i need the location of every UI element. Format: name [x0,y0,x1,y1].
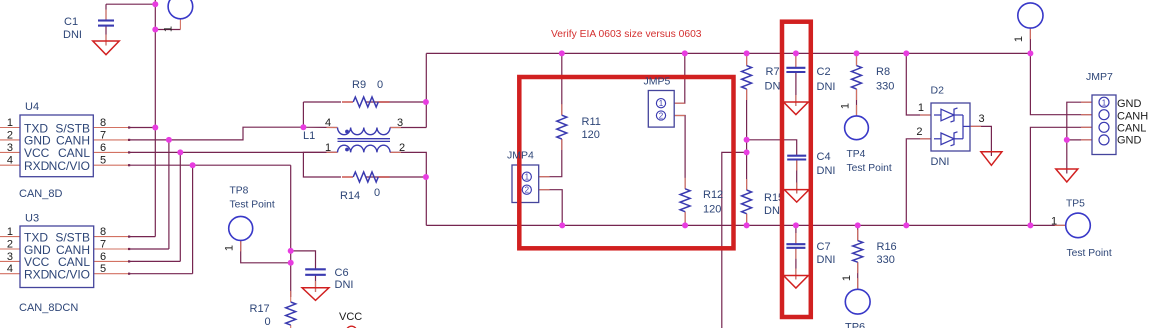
capacitor C7 [786,244,805,248]
svg-text:C1: C1 [64,16,78,28]
diode D2 dual TVS [931,103,970,151]
label R7 [765,66,784,93]
pin numbers U4 [7,117,106,167]
wire L1 pin2 to vertical [390,152,426,225]
capacitor C2 [786,68,805,72]
svg-text:330: 330 [877,254,895,266]
wire D2 pin2 link [906,139,931,226]
svg-text:3: 3 [7,142,13,154]
svg-text:R16: R16 [877,241,897,253]
svg-text:120: 120 [582,129,600,141]
svg-text:1: 1 [1102,98,1107,107]
wire C6 branch [291,251,316,269]
svg-text:R7: R7 [766,66,780,78]
resistor R15 [742,190,752,214]
wire top right TP drop [1029,28,1031,53]
svg-text:JMP4: JMP4 [507,150,534,162]
wire R16 to TP6 [857,262,859,289]
wire C7 to ground [795,248,797,280]
label R16 [877,241,897,266]
pin1 label TP4 [840,103,852,109]
wire C4 branch [747,140,797,156]
wire top test point branch [155,29,180,31]
connector JMP5 [648,91,674,128]
wire JMP4 pin2 to bottom bus [539,190,563,226]
svg-text:1: 1 [7,226,13,238]
wire C2 top lead [795,53,797,67]
svg-text:5: 5 [100,155,106,167]
svg-text:DNI: DNI [931,156,950,168]
svg-text:8: 8 [100,226,106,238]
svg-text:TP4: TP4 [847,149,866,160]
wire R7 to R15 mid [746,89,748,190]
wire R8 top lead [856,53,858,65]
svg-text:C7: C7 [817,241,831,253]
label TP6 [845,322,865,328]
svg-text:4: 4 [325,117,331,129]
label D2 [931,85,945,97]
svg-text:7: 7 [100,239,106,251]
svg-text:JMP5: JMP5 [644,76,671,88]
svg-text:1: 1 [7,117,13,129]
svg-text:JMP7: JMP7 [1086,71,1113,83]
svg-text:120: 120 [703,204,721,216]
svg-text:Test Point: Test Point [1067,248,1112,259]
svg-text:GND: GND [1117,135,1142,147]
svg-text:1: 1 [659,99,664,108]
testpoint TP6 circle [845,289,870,314]
svg-text:DNI: DNI [817,81,836,93]
label R8 [876,66,894,93]
wire VIO down branch [290,165,292,297]
label TP5 [1066,199,1112,259]
testpoint TP8 circle [229,216,253,240]
svg-text:2: 2 [916,126,922,138]
pin numbers U3 [7,226,106,275]
label JMP5 [644,76,671,88]
svg-text:3: 3 [397,117,403,129]
svg-text:R12: R12 [703,189,723,201]
svg-text:1: 1 [525,173,530,182]
svg-text:R17: R17 [250,303,270,315]
svg-text:R8: R8 [876,66,890,78]
wire JMP7 CANH link [1030,53,1092,114]
svg-text:TP8: TP8 [230,186,249,197]
label D2 DNI [931,156,950,168]
wire JMP7 GND pin4 stub [1067,139,1092,141]
inductor L1 common-mode choke [338,128,391,153]
wire L1 left CANH link [303,102,337,128]
pin labels L1 [325,117,405,154]
wire TP5 connection [1030,224,1065,226]
svg-text:3: 3 [7,251,13,263]
label C1 [63,16,82,41]
svg-text:7: 7 [100,129,106,141]
wire C7 top lead [795,225,797,244]
svg-text:RXD: RXD [24,159,50,173]
capacitor C4 [787,156,806,160]
annotation red rectangle tall [782,22,811,317]
svg-text:1: 1 [1051,216,1057,228]
wire U4 pin7 run [129,127,303,140]
svg-text:0: 0 [374,187,380,199]
svg-text:R9: R9 [352,79,366,91]
resistor R8 [852,66,862,89]
connector JMP7 [1092,95,1116,155]
wire R8 to TP4 [856,89,858,116]
svg-text:R11: R11 [582,116,601,128]
svg-text:0: 0 [377,79,383,91]
connector JMP4 [512,165,539,203]
wire R11 bottom to JMP4 pin1 [539,139,562,177]
wire C1 top lead [105,4,107,20]
wire R9 left lead [303,101,341,103]
IC U3 CAN transceiver [20,226,94,288]
capacitor C1 [98,21,114,26]
label C7 [817,241,836,266]
label CAN_8DCN [19,302,78,314]
ground C6 [302,288,329,301]
wire JMP7 GND pin1 link [1067,102,1092,173]
resistor R17 [286,302,296,325]
wire TP8 connection [241,240,291,262]
testpoint top right circle [1018,3,1043,28]
resistor R14 [353,172,378,182]
wire C6 to ground [315,275,317,292]
svg-text:5: 5 [100,263,106,275]
svg-text:U3: U3 [25,213,39,225]
label R9 [352,79,383,91]
svg-text:C4: C4 [817,151,831,163]
pin labels JMP7 [1117,98,1148,147]
svg-text:4: 4 [7,155,13,167]
resistor R12 [680,189,690,212]
svg-text:TP6: TP6 [845,322,865,328]
svg-text:1: 1 [918,102,924,114]
label R12 [703,189,723,216]
label JMP7 [1086,71,1113,83]
svg-text:2: 2 [7,129,13,141]
svg-text:D2: D2 [931,85,945,97]
svg-text:NC/VIO: NC/VIO [49,159,90,173]
IC U4 CAN transceiver [20,115,93,177]
svg-text:1: 1 [325,142,331,154]
label CAN_8D [19,188,62,200]
svg-text:1: 1 [841,275,853,281]
svg-text:6: 6 [100,142,106,154]
wire bottom bus [426,224,1030,226]
svg-text:330: 330 [876,81,894,93]
wire JMP5 pin1 to top bus [674,53,685,103]
ground C4 [784,190,809,203]
label L1 [303,130,315,142]
label U4 [25,101,39,113]
wire R12 bottom lead [684,212,686,226]
wire U4 pin5 run [129,164,291,166]
wire JMP5 pin2 to R12 [674,116,685,189]
wire L1 left CANL link [303,152,341,177]
svg-text:CAN_8DCN: CAN_8DCN [19,302,78,314]
wire R9 right lead [366,101,426,103]
pin labels D2 [916,102,984,138]
wire U4 pin6 run to L1 pin1 [129,151,338,153]
ground C1 [93,41,119,55]
label R15 [764,192,784,217]
svg-text:C6: C6 [335,267,349,279]
pin1 label TP8 [224,245,236,251]
wire U3 pin5 stub run [129,273,193,275]
wire C4 to ground [796,160,798,194]
testpoint top circle [168,0,193,19]
svg-text:1: 1 [224,245,236,251]
svg-text:RXD: RXD [24,268,50,282]
pin1 label top right testpoint [1013,36,1025,42]
label U3 [25,213,39,225]
ground D2 [981,152,1002,166]
pin1 label TP5 [1051,216,1057,228]
svg-text:2: 2 [525,186,530,195]
label JMP4 [507,150,534,162]
svg-text:6: 6 [100,251,106,263]
wire C1 top to S/STB node [106,3,155,5]
wire D2 pin1 link [906,53,931,115]
svg-text:DNI: DNI [335,279,354,291]
svg-text:Test Point: Test Point [230,200,275,211]
testpoint TP5 circle [1066,213,1091,238]
wire CANL vertical U4-U3 [179,152,181,261]
pin1 label top testpoint [163,26,175,32]
svg-text:VCC: VCC [339,311,362,323]
annotation text verify [551,29,702,40]
svg-text:GND: GND [1117,98,1142,110]
wire U3 pin6 stub run [129,260,180,262]
svg-text:R14: R14 [340,190,360,202]
wire C1 bottom to ground [105,26,107,46]
label R11 [582,116,601,141]
wire L1 pin3 to vertical [390,127,426,129]
svg-text:1: 1 [1013,36,1025,42]
wire CANH vertical U4-U3 [168,140,170,249]
wire VIO vertical U4-U3 [192,165,194,274]
svg-text:C2: C2 [817,66,831,78]
wire U4 pin8 to node [129,127,155,129]
resistor R16 [853,241,863,263]
svg-text:1: 1 [163,26,175,32]
svg-text:TP5: TP5 [1066,199,1085,210]
svg-text:L1: L1 [303,130,315,142]
wire D2 pin3 to ground [970,126,991,156]
svg-text:DNI: DNI [817,254,836,266]
wire U3 pin7 stub run [129,248,169,250]
wire top bus left drop [425,53,427,127]
svg-text:0: 0 [265,316,271,328]
label R14 [340,187,380,202]
svg-text:NC/VIO: NC/VIO [49,268,90,282]
wire JMP7 CANL link [1030,127,1092,225]
svg-text:U4: U4 [25,101,39,113]
svg-text:DNI: DNI [63,29,82,41]
label TP8 [230,186,275,211]
wire R15 bottom lead [746,214,748,226]
svg-text:4: 4 [7,263,13,275]
svg-text:Verify EIA 0603 size versus 06: Verify EIA 0603 size versus 0603 [551,29,702,40]
wire R7 top lead [746,53,748,65]
wire U3 pin8 stub run [129,236,155,238]
pin1 label TP6 [841,275,853,281]
testpoint TP4 circle [845,116,869,140]
wire mid branch down [722,152,747,328]
label TP4 [847,149,892,174]
resistor R9 [353,97,378,107]
power VCC [339,311,362,328]
svg-text:DNI: DNI [817,165,836,177]
svg-text:1: 1 [840,103,852,109]
svg-text:CANH: CANH [1117,111,1148,123]
wire top bus [426,52,1030,54]
svg-text:3: 3 [979,113,985,125]
svg-text:2: 2 [399,142,405,154]
ground C2 [784,102,809,115]
wire R14 right lead [366,176,426,178]
wire pin end ticks [128,126,130,274]
svg-text:2: 2 [659,111,664,120]
wire C2 to ground [795,72,797,106]
label C2 [817,66,836,93]
svg-text:8: 8 [100,117,106,129]
annotation red rectangle large [519,77,733,248]
label R17 [250,303,271,328]
resistor R7 [742,66,752,89]
svg-text:CANL: CANL [1117,123,1146,135]
wire pin stubs U4 U3 [0,128,129,274]
capacitor C6 [305,269,326,275]
ground C7 [784,276,809,289]
svg-text:2: 2 [7,239,13,251]
wire S/STB vertical bus [154,0,156,237]
ground JMP7 [1056,169,1078,182]
svg-text:Test Point: Test Point [847,163,892,174]
label C6 [335,267,354,291]
wire R16 top lead [857,225,859,240]
label C4 [817,151,836,177]
wire R11 top lead [561,53,563,115]
resistor R11 [557,115,567,139]
svg-text:CAN_8D: CAN_8D [19,188,62,200]
